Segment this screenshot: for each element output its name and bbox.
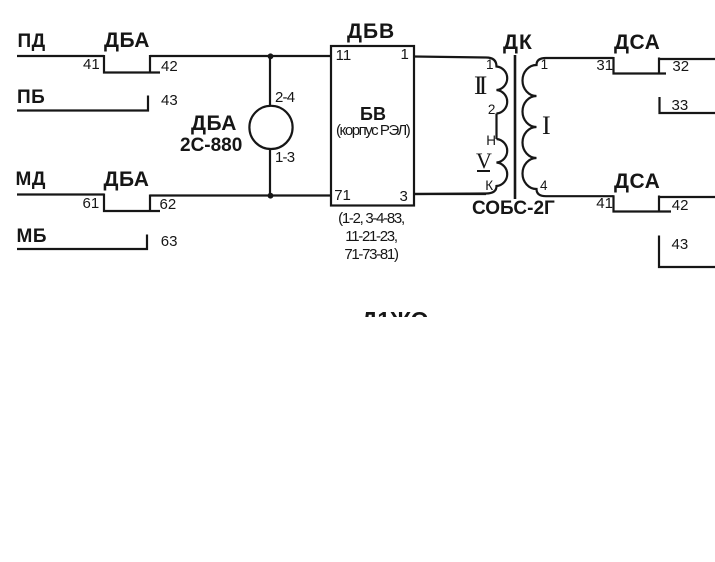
pin 2 winding II	[488, 103, 496, 117]
pin 11	[336, 48, 352, 63]
transformer ДК winding I (pins 1-4)	[523, 58, 614, 196]
block БВ rectangle	[331, 46, 414, 206]
pin 42 of ДСА	[672, 198, 689, 213]
connector ДБА contact 41-42 (staple)	[104, 55, 160, 73]
label МД	[16, 170, 46, 189]
label winding II	[474, 73, 483, 99]
wire БВ pin 3 to transformer winding V	[414, 193, 486, 195]
wire vertical branch to lamp 2С-880 lower	[269, 149, 271, 196]
wire net ПБ	[17, 96, 148, 111]
connector ДСА contact 33 stub	[660, 97, 715, 113]
pin Н winding V	[486, 134, 496, 148]
wire net МБ	[17, 235, 147, 250]
junction dot upper	[268, 53, 274, 59]
label ПД	[18, 32, 46, 51]
pin 1 of БВ	[401, 47, 409, 62]
transformer ДК winding V (pins Н-К)	[414, 139, 507, 194]
wire net МД from connector to block БВ	[150, 194, 331, 196]
pin 62	[160, 197, 177, 212]
pin 4 winding I	[540, 179, 548, 193]
label БВ	[360, 105, 386, 123]
pin 61	[83, 196, 100, 211]
wire net МД left segment	[17, 193, 104, 195]
pin 41 of ДСА	[596, 196, 613, 211]
transformer ДК winding link 2 to Н	[495, 114, 497, 140]
pin 1 winding II	[486, 58, 494, 72]
cut-off caption Д1ЖО	[361, 312, 431, 317]
pin К winding V	[485, 179, 493, 193]
label ДСА top	[614, 32, 660, 53]
connector ДСА contact 43 stub	[659, 236, 715, 268]
label winding V	[476, 150, 492, 172]
note (1-2, 3-4-83, 11-21-23, 71-73-81)	[333, 210, 409, 264]
pin 41	[83, 57, 100, 72]
label ДБА row1	[104, 30, 150, 51]
pin 43	[161, 93, 178, 108]
lamp ДБА 2С-880 circle	[249, 106, 292, 149]
pin 32	[672, 59, 689, 74]
pin 42	[161, 59, 178, 74]
label МБ	[17, 227, 47, 246]
pin 71	[334, 188, 351, 203]
label СОБС-2Г	[472, 199, 555, 218]
pin 63	[161, 234, 178, 249]
pin 1 winding I	[541, 58, 549, 72]
wire net ПД left segment	[17, 55, 104, 57]
connector ДСА contact 41-42 (staple)	[614, 195, 672, 211]
label ДСА bottom	[614, 171, 660, 192]
wire net 32 to right edge	[659, 58, 715, 60]
connector ДСА contact 31-32 (staple)	[614, 57, 667, 74]
label 2С-880	[180, 136, 242, 155]
pin 2-4	[275, 90, 294, 105]
label ДБА lamp	[191, 113, 237, 134]
label ДБА row3	[104, 169, 150, 190]
wire net 42 to right edge	[659, 196, 715, 198]
wire net ПД from connector to block БВ	[150, 55, 331, 57]
pin 31	[596, 58, 613, 73]
label ДК	[503, 32, 533, 53]
wire vertical branch to lamp 2С-880 upper	[269, 56, 271, 106]
pin 3 of БВ	[400, 189, 408, 204]
label ПБ	[17, 88, 45, 107]
junction dot lower	[268, 193, 274, 199]
label ДБВ	[347, 21, 395, 42]
transformer ДК winding II (pins 1-2)	[486, 58, 507, 114]
connector ДБА contact 61-62 (staple)	[104, 194, 160, 212]
underline of winding V label	[477, 170, 490, 172]
pin 43 of ДСА	[672, 237, 689, 252]
label winding I	[542, 113, 551, 139]
wire БВ pin 1 to transformer winding II	[414, 57, 486, 58]
transformer ДК core	[514, 55, 517, 199]
pin 1-3	[275, 150, 294, 165]
label (корпус РЭЛ)	[336, 123, 409, 138]
pin 33	[672, 98, 689, 113]
